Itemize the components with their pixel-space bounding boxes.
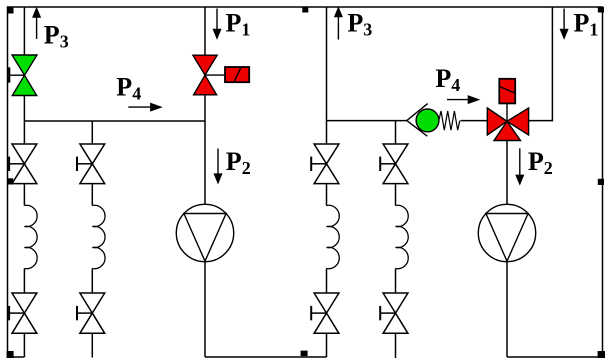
svg-text:P1: P1 bbox=[226, 9, 251, 40]
svg-text:P3: P3 bbox=[44, 20, 69, 51]
svg-text:P2: P2 bbox=[226, 147, 251, 178]
svg-text:P2: P2 bbox=[528, 147, 553, 178]
svg-text:P3: P3 bbox=[347, 9, 372, 40]
svg-text:P4: P4 bbox=[435, 64, 460, 95]
svg-text:P1: P1 bbox=[574, 8, 599, 39]
svg-text:P4: P4 bbox=[116, 72, 141, 103]
